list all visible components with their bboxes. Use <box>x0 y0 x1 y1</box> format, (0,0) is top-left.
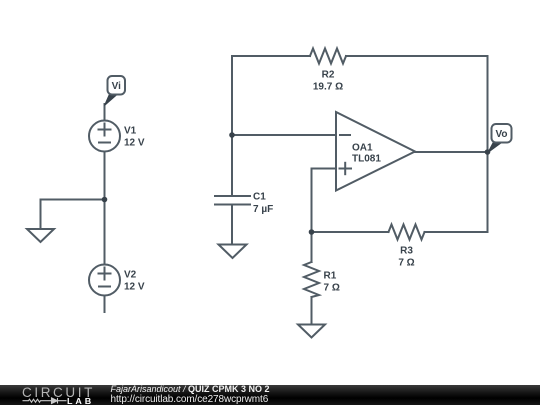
wire right rail <box>487 56 489 232</box>
svg-text:OA1: OA1 <box>352 143 373 154</box>
svg-text:7 Ω: 7 Ω <box>398 258 414 269</box>
wire R3 right lead <box>425 231 488 233</box>
CircuitLab logo text CIRCUIT <box>22 385 95 400</box>
svg-text:TL081: TL081 <box>352 154 381 165</box>
wire non-inverting branch vertical <box>311 169 313 233</box>
svg-text:C1: C1 <box>253 192 266 203</box>
wire op-amp output <box>415 151 488 153</box>
wire V2 bottom stub <box>104 296 106 313</box>
svg-text:V2: V2 <box>124 270 137 281</box>
wire R3 left lead <box>312 231 389 233</box>
wire feedback top right segment <box>346 55 488 57</box>
footer line 2: url <box>111 394 269 405</box>
footer bar <box>0 385 540 405</box>
svg-text:19.7 Ω: 19.7 Ω <box>313 82 343 93</box>
ground (below C1) <box>219 245 247 259</box>
node Vo (output junction) <box>485 149 491 155</box>
svg-text:V1: V1 <box>124 126 137 137</box>
CircuitLab logo resistor-diode art <box>22 397 68 405</box>
node A (inverting input junction) <box>229 132 235 138</box>
flag Vi <box>105 76 126 106</box>
node (non-inverting / R1 / R3 junction) <box>309 229 315 235</box>
resistor R1 <box>304 262 319 297</box>
wire op-amp non-inverting input horizontal <box>312 168 337 170</box>
wire C1 bottom lead <box>231 205 233 245</box>
resistor R3 <box>389 225 425 240</box>
node (V1-V2 midpoint junction) <box>102 197 108 203</box>
op-amp OA1 <box>336 112 415 191</box>
ground (below R1) <box>298 325 325 338</box>
wire op-amp inverting input <box>232 134 336 136</box>
wire R1 bottom lead <box>311 297 313 325</box>
svg-text:R1: R1 <box>324 271 337 282</box>
resistor R2 <box>310 49 346 64</box>
voltage source V1 <box>89 121 120 152</box>
ground (left, between V1 and V2) <box>27 229 54 242</box>
voltage source V2 <box>89 265 120 296</box>
svg-text:12 V: 12 V <box>124 282 145 293</box>
flag Vo <box>488 124 512 153</box>
wire node to left ground horizontal <box>41 199 105 201</box>
footer line 1: author / title <box>111 384 270 394</box>
wire R1 top lead <box>311 232 313 262</box>
wire feedback top left segment <box>232 55 310 57</box>
wire node A up to feedback rail <box>231 56 233 135</box>
svg-text:R2: R2 <box>322 70 335 81</box>
svg-text:7 Ω: 7 Ω <box>324 283 340 294</box>
svg-text:12 V: 12 V <box>124 138 145 149</box>
wire Vi stub to V1 top <box>104 104 106 121</box>
wire V1 bottom to V2 top (through node) <box>104 152 106 265</box>
svg-text:Vi: Vi <box>112 81 121 92</box>
wire left ground vertical <box>40 200 42 230</box>
CircuitLab logo text LAB <box>67 397 94 405</box>
wire C1 top lead <box>231 135 233 196</box>
svg-text:7 µF: 7 µF <box>253 204 273 215</box>
svg-text:R3: R3 <box>400 246 413 257</box>
svg-text:Vo: Vo <box>495 129 507 140</box>
capacitor C1 <box>215 196 250 205</box>
